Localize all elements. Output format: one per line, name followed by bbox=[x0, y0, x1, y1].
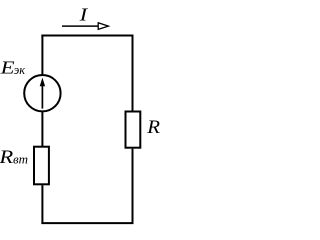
source E circle bbox=[24, 75, 60, 111]
wire left middle bbox=[41, 112, 43, 147]
wire right lower bbox=[132, 149, 134, 224]
resistor Rvt body bbox=[34, 147, 49, 185]
svg-text:вт: вт bbox=[13, 152, 28, 167]
wire right upper bbox=[132, 35, 134, 112]
svg-text:I: I bbox=[78, 6, 88, 25]
source arrow bbox=[40, 78, 45, 109]
label R_vt bbox=[0, 145, 28, 167]
current arrow I bbox=[62, 23, 108, 30]
label E_ek bbox=[0, 59, 25, 78]
svg-text:эк: эк bbox=[14, 63, 26, 77]
wire bottom bbox=[41, 222, 133, 224]
svg-text:R: R bbox=[146, 117, 160, 138]
wire top bbox=[41, 35, 133, 37]
wire left upper bbox=[41, 35, 43, 76]
wire left lower bbox=[41, 185, 43, 224]
svg-text:R: R bbox=[0, 145, 13, 167]
resistor R body bbox=[126, 112, 141, 148]
